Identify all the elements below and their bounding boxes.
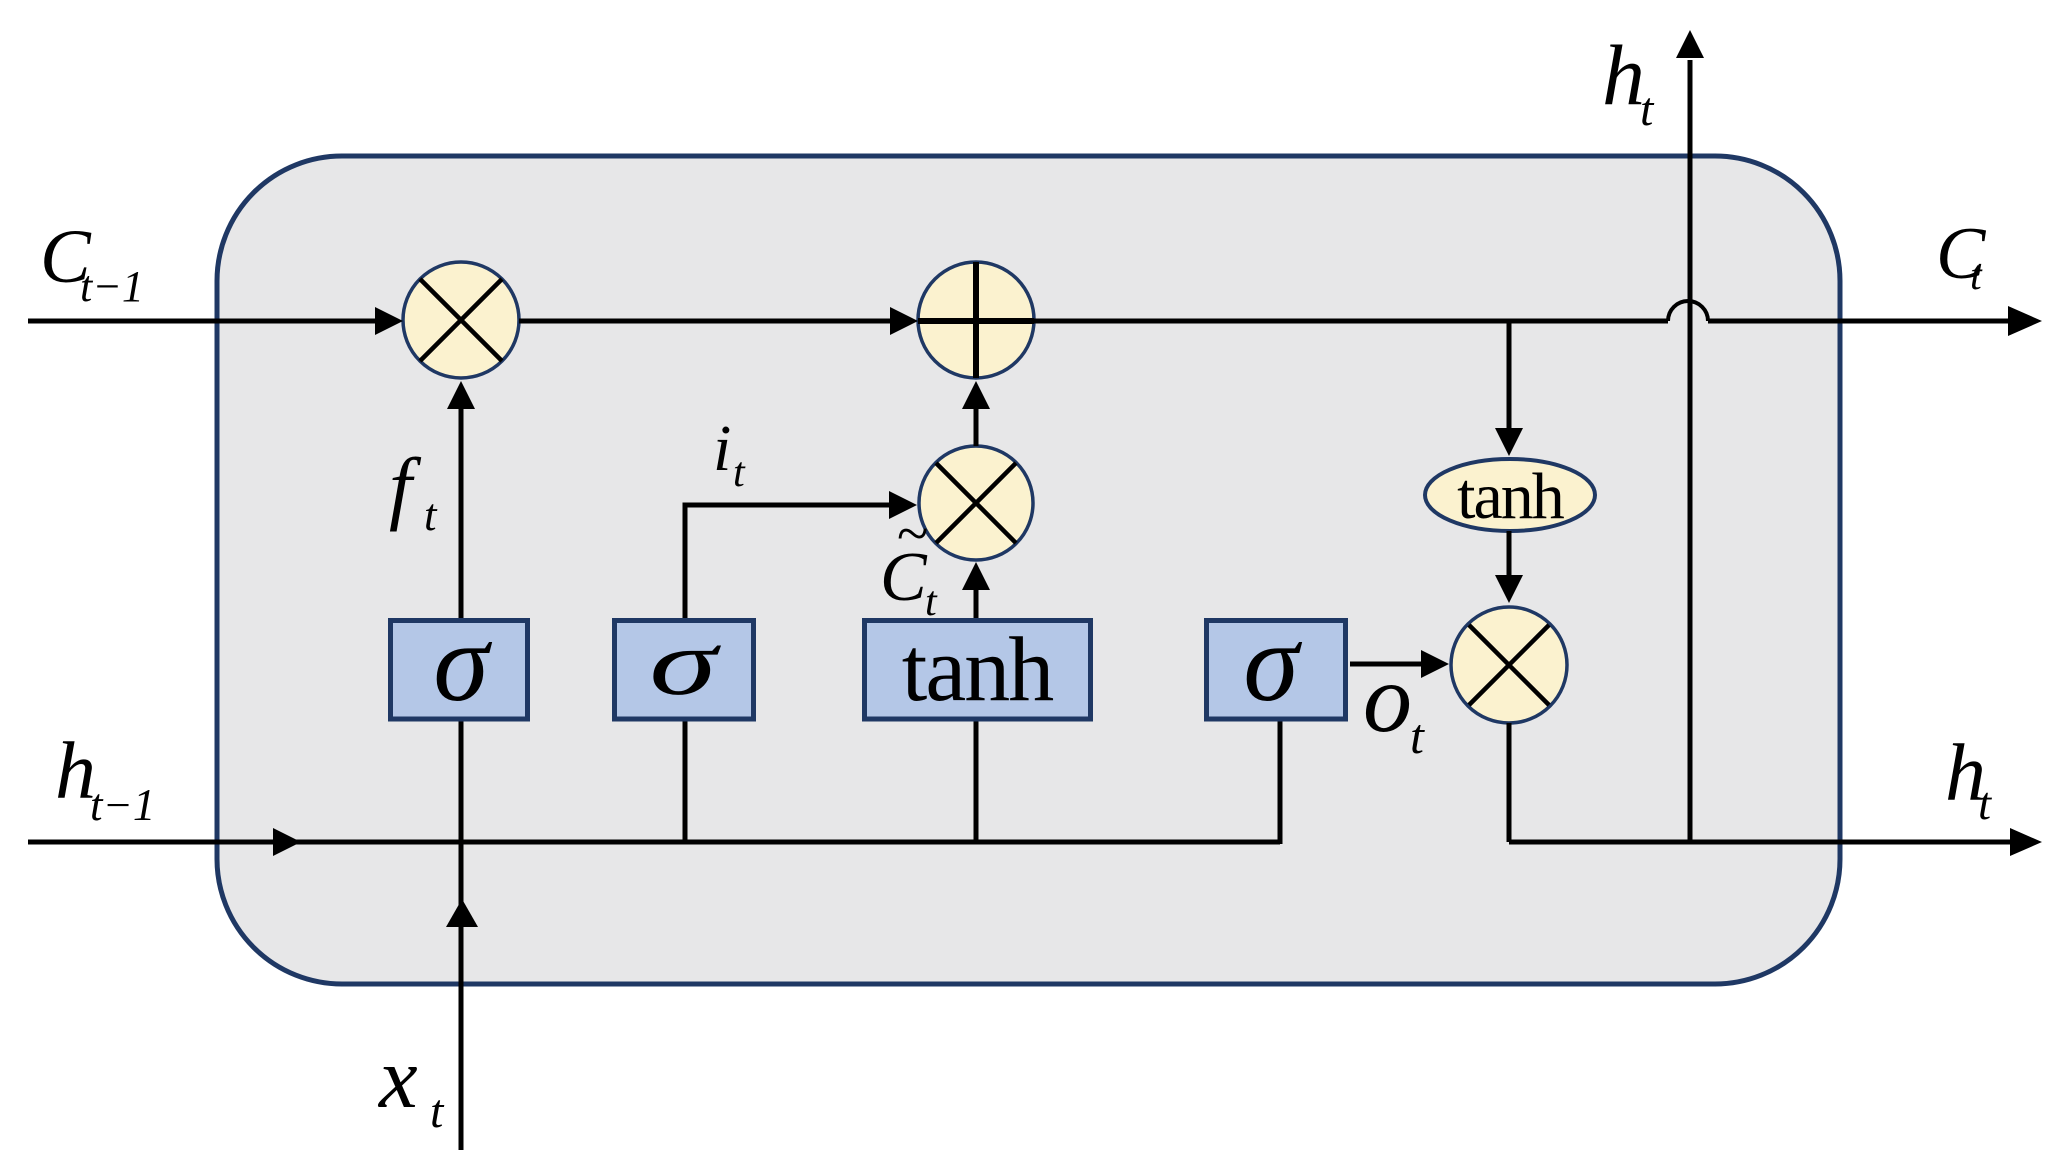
svg-text:x: x <box>377 1029 418 1126</box>
tanh ellipse node <box>1425 459 1595 533</box>
wire cell-state line between X1 and PLUS <box>519 319 892 324</box>
svg-text:t: t <box>733 450 746 496</box>
svg-text:t: t <box>1410 708 1425 764</box>
gate box sigma4 <box>1207 601 1346 725</box>
svg-text:t: t <box>1640 83 1655 136</box>
arrowhead i_t into Xmid <box>889 491 917 519</box>
svg-text:C: C <box>880 539 928 616</box>
gate box sigma2 <box>615 611 754 719</box>
label h_t top <box>1602 27 1655 136</box>
svg-text:t: t <box>1970 253 1983 299</box>
svg-text:t: t <box>430 1085 445 1138</box>
arrowhead f_t up into X1 <box>447 381 475 409</box>
svg-text:t−1: t−1 <box>80 262 144 311</box>
svg-text:σ: σ <box>1243 601 1302 725</box>
arrowhead C_t output <box>2008 306 2042 336</box>
svg-text:tanh: tanh <box>1457 460 1565 533</box>
svg-text:t: t <box>1978 778 1992 830</box>
label i_t <box>713 412 746 496</box>
arrowhead o_t into Xright <box>1421 650 1449 678</box>
wire riser sigma4 to h line <box>1278 721 1283 844</box>
multiply node X1 (forget gate product) <box>403 262 519 378</box>
svg-text:t: t <box>424 490 438 540</box>
gate box sigma1 <box>391 601 528 725</box>
arrowhead h_{t-1} into cell <box>273 828 301 856</box>
wire cell-state line left segment <box>28 319 377 324</box>
wire Xmid to PLUS stem <box>974 409 979 446</box>
multiply node Xright (output gate product) <box>1451 607 1567 723</box>
arrowhead Xmid up into PLUS <box>962 381 990 409</box>
wire sigma4 to Xright <box>1350 662 1423 667</box>
label C_t <box>1936 213 1987 299</box>
LSTM cell body <box>217 156 1840 984</box>
arrowhead h_t right output <box>2010 828 2042 856</box>
label o_t <box>1363 645 1425 764</box>
add node PLUS <box>918 262 1034 378</box>
wire h_t vertical output <box>1688 60 1693 842</box>
arrowhead down into tanh ellipse <box>1495 428 1523 456</box>
arrowhead x_t up <box>446 899 478 927</box>
svg-text:o: o <box>1363 645 1412 753</box>
svg-text:t: t <box>925 579 938 625</box>
arrowhead into PLUS <box>890 307 918 335</box>
label C-tilde_t <box>880 501 938 625</box>
wire hop over h_t line <box>1668 301 1708 321</box>
label h_t right <box>1945 727 1992 830</box>
wire riser tanh box to h line and candidate arrow stem <box>974 590 979 844</box>
svg-text:σ: σ <box>649 611 721 715</box>
gate box tanh <box>865 618 1091 720</box>
wire x_t vertical input <box>459 721 464 1150</box>
label f_t <box>389 441 438 540</box>
svg-text:i: i <box>713 412 731 485</box>
label C_{t-1} <box>40 215 144 311</box>
wire hidden-state line left <box>28 840 1280 845</box>
wire hidden-state line right output <box>1509 840 2012 845</box>
wire f_t vertical into X1 <box>459 409 464 620</box>
svg-text:tanh: tanh <box>902 618 1053 720</box>
arrowhead into X1 <box>375 307 403 335</box>
wire Xright down to h line <box>1507 723 1512 842</box>
label x_t <box>377 1029 445 1138</box>
label h_{t-1} <box>55 725 155 830</box>
wire i_t elbow from sigma2 to Xmid <box>685 505 889 844</box>
arrowhead h_t top output <box>1676 30 1704 58</box>
wire cell-state line after hop <box>1708 319 2012 324</box>
svg-text:h: h <box>1602 27 1645 123</box>
wire tanh ellipse to Xright <box>1507 531 1512 577</box>
svg-text:σ: σ <box>433 601 492 725</box>
svg-text:t−1: t−1 <box>90 780 155 830</box>
wire cell-state line through PLUS with hop over h_t line <box>918 319 1668 324</box>
wire cell-state down to tanh ellipse <box>1507 321 1512 430</box>
arrowhead down into Xright <box>1495 575 1523 603</box>
arrowhead candidate up into Xmid <box>962 562 990 590</box>
multiply node Xmid (input gate product) <box>919 446 1033 560</box>
